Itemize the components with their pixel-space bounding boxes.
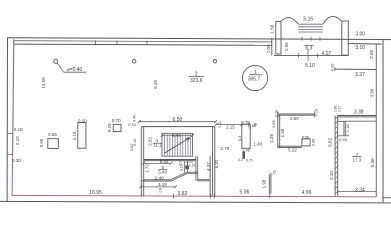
svg-text:5.40: 5.40 (158, 169, 167, 174)
svg-text:1.18: 1.18 (345, 124, 350, 133)
svg-text:17.3: 17.3 (353, 157, 362, 162)
svg-text:2.15: 2.15 (226, 125, 235, 130)
svg-text:1.98: 1.98 (262, 179, 267, 188)
svg-text:4.07: 4.07 (321, 51, 331, 57)
svg-text:5.38: 5.38 (370, 158, 375, 167)
svg-text:1.98: 1.98 (242, 148, 249, 152)
svg-text:2.02: 2.02 (147, 137, 152, 146)
svg-text:0.8: 0.8 (158, 188, 162, 193)
svg-text:12.56: 12.56 (41, 77, 46, 89)
svg-text:0.70: 0.70 (112, 118, 121, 123)
svg-text:2.10: 2.10 (72, 131, 77, 140)
svg-text:6.32: 6.32 (214, 159, 219, 168)
svg-text:0.10: 0.10 (14, 127, 23, 132)
svg-text:2.40: 2.40 (155, 176, 164, 181)
svg-text:323.6: 323.6 (190, 78, 203, 84)
svg-text:0.55: 0.55 (339, 137, 348, 142)
svg-text:2.60: 2.60 (290, 116, 299, 121)
svg-text:0.47: 0.47 (269, 169, 277, 176)
svg-text:6.50: 6.50 (173, 117, 183, 123)
svg-text:0.10: 0.10 (275, 110, 279, 117)
svg-text:0.85: 0.85 (302, 136, 309, 140)
svg-text:3.19: 3.19 (158, 182, 167, 187)
svg-text:⌀=0.40: ⌀=0.40 (67, 67, 83, 73)
svg-text:0.10: 0.10 (338, 105, 342, 112)
svg-text:1.45: 1.45 (280, 128, 285, 137)
svg-text:0.70: 0.70 (107, 123, 112, 132)
svg-text:5.22: 5.22 (288, 148, 297, 153)
svg-text:5.33: 5.33 (160, 159, 169, 164)
svg-text:0.10: 0.10 (179, 164, 183, 170)
svg-text:0.9: 0.9 (238, 136, 242, 141)
svg-text:3.38: 3.38 (354, 109, 364, 115)
svg-text:0.10: 0.10 (314, 109, 318, 116)
svg-text:0.2: 0.2 (238, 158, 243, 162)
svg-text:1: 1 (254, 70, 257, 76)
svg-text:2.50: 2.50 (369, 50, 374, 59)
svg-text:3.37: 3.37 (355, 72, 365, 78)
svg-text:5.98: 5.98 (172, 133, 181, 138)
svg-text:4.37: 4.37 (206, 162, 211, 171)
svg-text:0.20: 0.20 (78, 118, 87, 123)
svg-text:5.06: 5.06 (240, 190, 250, 196)
svg-text:0.82: 0.82 (130, 144, 134, 151)
svg-text:11.1: 11.1 (153, 143, 162, 148)
svg-text:0.30: 0.30 (12, 158, 21, 163)
svg-text:0.65: 0.65 (39, 138, 44, 147)
svg-text:16.95: 16.95 (89, 190, 102, 196)
svg-text:6.62: 6.62 (327, 137, 332, 146)
svg-text:0.85: 0.85 (271, 119, 276, 128)
svg-text:2.10: 2.10 (15, 136, 20, 145)
svg-text:0.85: 0.85 (311, 139, 315, 146)
svg-text:365.7: 365.7 (248, 76, 261, 82)
svg-text:1.72: 1.72 (144, 164, 149, 173)
svg-text:0.10: 0.10 (189, 164, 195, 168)
svg-text:0.65: 0.65 (48, 132, 57, 137)
svg-text:3.82: 3.82 (178, 191, 188, 197)
svg-text:0.10: 0.10 (330, 63, 335, 72)
svg-text:1.40: 1.40 (253, 141, 262, 146)
svg-text:6.3: 6.3 (305, 45, 312, 51)
svg-text:0.10: 0.10 (128, 123, 135, 127)
svg-text:5.10: 5.10 (305, 63, 315, 69)
svg-text:1.50: 1.50 (269, 24, 274, 33)
svg-text:2.78: 2.78 (221, 146, 230, 151)
svg-text:6.35: 6.35 (153, 79, 158, 88)
svg-text:4.96: 4.96 (302, 190, 312, 196)
svg-text:3.34: 3.34 (355, 188, 365, 194)
svg-text:1.55: 1.55 (284, 42, 289, 51)
svg-text:1.28: 1.28 (269, 133, 274, 142)
svg-text:0.10: 0.10 (218, 121, 222, 128)
svg-text:5.15: 5.15 (303, 16, 313, 22)
svg-text:0.40: 0.40 (132, 115, 136, 122)
svg-text:3.10: 3.10 (355, 45, 365, 51)
svg-text:0.70: 0.70 (246, 158, 253, 162)
svg-text:2: 2 (195, 72, 198, 78)
svg-text:3.00: 3.00 (355, 31, 365, 37)
svg-text:2.10: 2.10 (329, 171, 334, 180)
svg-text:3.90: 3.90 (369, 88, 374, 97)
svg-text:1.05: 1.05 (266, 44, 271, 53)
